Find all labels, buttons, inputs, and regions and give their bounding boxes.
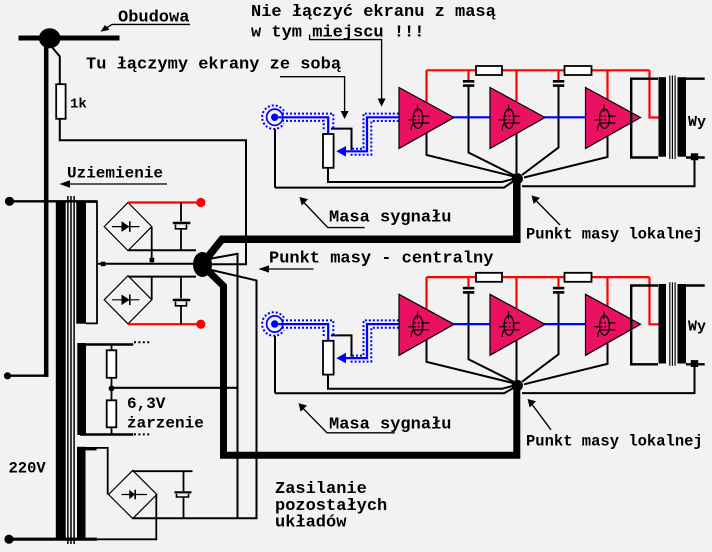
tube symbol inside U23: [594, 311, 616, 337]
HV secondary winding bar: [76, 202, 86, 324]
capacitor C2: [180, 277, 182, 299]
output transformer T1 primary loop: [631, 79, 658, 158]
input jack J1 ring: [267, 109, 283, 125]
wire middle terminal to earth line: [8, 375, 49, 377]
decoupling capacitor C1a: [467, 71, 469, 80]
wire bridge3 minus to fan riser: [133, 517, 258, 519]
resistor Ra: [107, 350, 117, 378]
output transformer T2 primary winding bar: [659, 284, 667, 364]
heater top dotted continuation: [134, 341, 150, 343]
red feed to output transformer primary: [650, 277, 660, 324]
HV winding right-side riser: [86, 202, 97, 323]
wire grid resistor bottom to local ground point: [328, 168, 513, 182]
svg-text:Wy: Wy: [688, 319, 706, 336]
rail resistor Rb1: [565, 66, 592, 75]
decoupling capacitor C2b: [557, 278, 559, 287]
capacitor C3: [183, 471, 185, 491]
mains terminal dot middle: [4, 372, 11, 379]
signal wire stage2-stage3 (blue): [544, 116, 587, 118]
bridge rectifier 3: [109, 470, 157, 518]
wire bottom to bridge3 right corner: [97, 495, 156, 540]
wire cap C1a ground: [469, 87, 515, 176]
wire shield jumper at grid resistor: [331, 335, 352, 356]
svg-text:1k: 1k: [70, 97, 87, 113]
grid resistor R1: [323, 134, 334, 168]
tube symbol inside U11: [408, 105, 430, 131]
leader Masa sygnału: [302, 201, 365, 228]
output transformer T1 core: [669, 76, 671, 160]
capacitor C1: [180, 203, 182, 222]
mains terminal dot lower: [4, 535, 13, 544]
signal wire stage1-stage2 (blue): [453, 116, 491, 118]
wire cap C2b ground: [522, 294, 559, 382]
chassis junction dot: [39, 28, 61, 48]
aux winding bar: [77, 447, 86, 540]
wire jack J2 ground stem: [274, 336, 276, 393]
signal wire segment B (blue): [346, 117, 400, 151]
red drop to stage3 anode: [606, 70, 608, 105]
op-amp/tube stage U13 (triangle): [586, 88, 641, 149]
junction square secondary ground tap: [691, 360, 698, 367]
tube symbol inside U13: [594, 105, 616, 131]
op-amp/tube stage U22 (triangle): [490, 294, 545, 355]
earth vertical wire (Uziemienie): [44, 38, 49, 377]
wire secondary top to output Wy: [686, 77, 705, 79]
decoupling capacitor C1b: [557, 71, 559, 80]
resistor Rb: [107, 400, 117, 427]
wire cap C1b ground: [522, 87, 559, 175]
shield of cable segment B (dotted): [352, 320, 399, 355]
leader Punkt masy lokalnej: [531, 403, 551, 430]
wire upper terminal to HV winding riser: [10, 200, 98, 202]
svg-text:żarzenie: żarzenie: [127, 415, 204, 433]
rail resistor Rb2: [565, 273, 592, 282]
grid resistor R2: [323, 341, 334, 375]
output transformer T1 primary winding bar: [659, 77, 667, 157]
wire stage2 cathode to local ground: [516, 134, 518, 176]
svg-text:Wy: Wy: [688, 114, 706, 131]
wire heater CT to central ground: [112, 387, 238, 389]
tube symbol inside U12: [499, 105, 521, 131]
svg-text:220V: 220V: [9, 460, 47, 478]
input jack J1 shield dotted wrap: [262, 105, 284, 129]
aux winding top stub: [77, 447, 97, 450]
decoupling capacitor C2a: [467, 278, 469, 287]
input jack J2 center pin: [271, 320, 278, 327]
shield of cable segment A (dotted): [282, 114, 339, 129]
leader Punkt masy lokalnej: [534, 199, 560, 226]
svg-text:Masa sygnału: Masa sygnału: [329, 415, 451, 434]
leader line Tu łączymy: [280, 77, 345, 111]
wire cap C2a ground: [469, 294, 515, 383]
heater winding bar: [77, 343, 86, 435]
diode D2: [112, 299, 140, 301]
red drop to stage1 anode: [425, 277, 427, 311]
primary winding bar: [56, 202, 66, 540]
resistor 1k: [56, 84, 65, 119]
heater CT junction dot: [109, 386, 115, 392]
wire secondary bottom to output Wy: [686, 363, 705, 365]
output transformer T1 secondary winding bar: [678, 77, 687, 157]
terminal red dot 1: [196, 198, 205, 207]
shield of cable segment B (dotted): [352, 114, 399, 149]
wire signal ground (jack) to local ground point: [275, 182, 513, 188]
B+ rail (red): [427, 276, 650, 278]
wire lower terminal along bottom: [9, 538, 97, 541]
stem junction to resistor Rb: [111, 388, 113, 400]
wire bridge1 AC stem: [151, 227, 153, 260]
arrowhead Nie łączyć (down): [378, 99, 386, 107]
mains terminal dot upper: [5, 197, 14, 206]
core lines: [67, 196, 69, 544]
HV center tap junction square: [101, 262, 106, 267]
wire bridge1 minus to central ground: [129, 249, 197, 251]
heater bottom wire: [80, 433, 133, 435]
red drop to stage2 anode: [515, 277, 517, 312]
signal wire stage2-stage3 (blue): [544, 323, 587, 325]
output transformer T2 core: [669, 282, 671, 366]
signal wire stage1-stage2 (blue): [453, 323, 491, 325]
leader line Nie łączyć: [310, 35, 382, 100]
wire stage1 cathode to local ground: [427, 338, 515, 384]
junction square bridge1: [150, 258, 155, 263]
output transformer T2 primary loop: [631, 286, 658, 365]
wire signal ground (jack) to local ground point: [275, 388, 513, 393]
input jack J2 ring: [267, 316, 283, 332]
leader line Obudowa: [105, 24, 191, 29]
op-amp/tube stage U11 (triangle): [399, 88, 454, 149]
wire stage2 cathode to local ground: [516, 340, 518, 382]
stem Rb to heater bottom wire: [111, 427, 113, 434]
wire secondary bottom to output Wy: [686, 156, 705, 158]
wire transformer secondary ground return: [522, 160, 695, 186]
wire bridge3 plus: [133, 470, 193, 472]
wire jack J1 ground stem: [274, 129, 276, 188]
signal wire jack to grid resistor (blue): [279, 117, 329, 134]
svg-text:6,3V: 6,3V: [127, 395, 166, 413]
wire central dot stub to riser: [209, 263, 247, 265]
arrowhead Obudowa: [101, 25, 110, 32]
wire aux top to bridge3 left corner: [97, 448, 108, 495]
diode D3: [122, 494, 148, 496]
leader Masa sygnału: [302, 407, 395, 433]
op-amp/tube stage U23 (triangle): [586, 294, 641, 355]
local ground point (Punkt masy lokalnej): [512, 173, 523, 184]
tube symbol inside U21: [408, 311, 430, 337]
wire shield jumper at grid resistor: [331, 129, 352, 150]
local ground point (Punkt masy lokalnej): [512, 380, 523, 391]
arrowhead Tu łączymy (down): [341, 111, 349, 119]
svg-text:układów: układów: [275, 514, 347, 533]
rail resistor Ra1: [476, 66, 502, 75]
output transformer T2 secondary winding bar: [678, 284, 687, 364]
stem Ra to junction: [111, 378, 113, 388]
rail resistor Ra2: [476, 273, 502, 282]
wire bridge2 plus (red): [128, 323, 197, 325]
shield return arrow (blue): [336, 353, 346, 364]
heater top wire: [80, 343, 133, 345]
wire 1k resistor to central ground point: [60, 119, 246, 264]
wire transformer secondary ground return: [522, 367, 695, 393]
wire chassis dot to 1k resistor: [52, 47, 60, 85]
thick ground bus to top channel: [203, 179, 517, 263]
shield return arrow (blue): [336, 146, 346, 157]
wire stage3 cathode to local ground: [524, 340, 608, 384]
svg-text:Masa sygnału: Masa sygnału: [329, 209, 451, 228]
input jack J1 center pin: [271, 114, 278, 121]
wire grid resistor bottom to local ground point: [328, 375, 513, 389]
op-amp/tube stage U12 (triangle): [490, 88, 545, 149]
thin fan wire 2 (aux ground riser): [205, 269, 257, 520]
red feed to output transformer primary: [650, 70, 660, 117]
chassis bar (Obudowa): [19, 36, 120, 41]
op-amp/tube stage U21 (triangle): [399, 294, 454, 355]
stem to resistor Ra: [111, 345, 113, 351]
svg-text:Nie łączyć ekranu z masą: Nie łączyć ekranu z masą: [251, 3, 496, 22]
red drop to stage3 anode: [606, 277, 608, 312]
wire stage1 cathode to local ground: [427, 131, 515, 177]
wire stage3 cathode to local ground: [524, 134, 608, 178]
wire HV tap to central ground: [97, 263, 195, 265]
junction square secondary ground tap: [691, 153, 698, 160]
signal wire segment B (blue): [346, 324, 400, 358]
svg-text:Tu łączymy ekrany ze sobą: Tu łączymy ekrany ze sobą: [86, 56, 341, 75]
wire secondary top to output Wy: [686, 284, 705, 286]
svg-text:Punkt masy lokalnej: Punkt masy lokalnej: [526, 432, 703, 450]
arrow Punkt masy centralny: [263, 268, 314, 270]
B+ rail (red): [427, 69, 650, 71]
thin fan wire 1 (heater/aux ground riser): [206, 254, 238, 519]
input jack J2 shield dotted wrap: [262, 312, 284, 336]
signal wire jack to grid resistor (blue): [279, 324, 329, 341]
heater bottom dotted continuation: [134, 433, 150, 435]
red drop to stage2 anode: [515, 70, 517, 105]
tube symbol inside U22: [499, 311, 521, 337]
thick ground bus to bottom channel: [203, 266, 517, 455]
wire bridge1 plus (red): [128, 201, 197, 203]
shield of cable segment A (dotted): [282, 320, 339, 335]
terminal red dot 2: [196, 320, 205, 329]
wire bridge2 minus to central ground: [129, 276, 197, 278]
central ground dot: [193, 252, 212, 277]
diode D1: [112, 226, 140, 228]
arrow Uziemienie: [64, 183, 167, 185]
red drop to stage1 anode: [425, 70, 427, 104]
svg-text:Punkt masy - centralny: Punkt masy - centralny: [269, 250, 493, 269]
svg-text:Punkt masy lokalnej: Punkt masy lokalnej: [526, 226, 703, 244]
wire bridge2 AC stem: [151, 278, 153, 300]
svg-text:Uziemienie: Uziemienie: [67, 165, 163, 183]
